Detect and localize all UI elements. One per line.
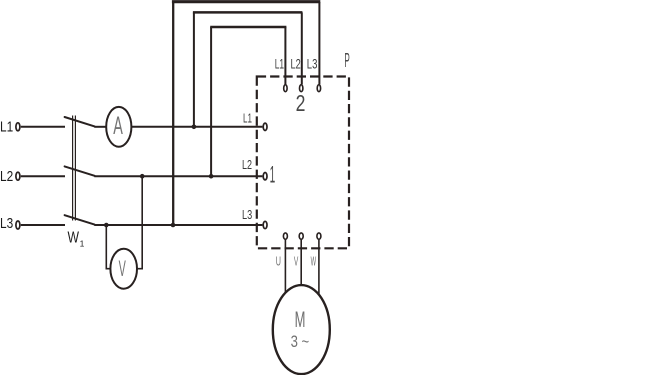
wire: middle bridge right vertical to plug top terminal L2 [301, 12, 303, 84]
svg-text:V: V [294, 254, 299, 269]
ammeter A [106, 107, 131, 147]
svg-text:P: P [344, 50, 349, 72]
junction: middle bridge tap on L1 [192, 125, 197, 130]
wire: inner bridge left vertical [210, 27, 212, 176]
terminal: L1 source [16, 123, 20, 131]
wire: W lead to motor [318, 240, 320, 296]
svg-text:W: W [68, 229, 80, 246]
wire: L3 source to switch [21, 224, 65, 226]
switch W1 blade pole 1 [65, 117, 95, 126]
wire: outer bridge top horizontal [172, 0, 320, 3]
motor M1 body [273, 285, 330, 374]
wire: voltmeter left lead [106, 225, 110, 269]
svg-text:L1: L1 [275, 56, 284, 71]
wire: middle bridge top horizontal [193, 11, 303, 14]
svg-text:L3: L3 [242, 207, 252, 222]
terminal: plug bottom U [283, 233, 287, 239]
svg-text:W: W [311, 254, 317, 269]
junction: outer bridge tap on L3 [171, 223, 176, 228]
wire: inner bridge right vertical to plug top terminal L1 [284, 27, 286, 84]
wire: voltmeter right lead [137, 176, 142, 269]
svg-text:A: A [113, 112, 123, 140]
svg-text:L1: L1 [0, 119, 13, 136]
switch W1 mechanical linkage [72, 116, 74, 221]
wire: switch pole2 to plug P terminal L2 [94, 175, 262, 177]
junction: inner bridge tap on L2 [209, 174, 214, 179]
terminal: plug top L2 [300, 85, 303, 92]
terminal: plug left L2 [263, 173, 267, 180]
terminal: plug top L1 [284, 85, 287, 92]
svg-text:1: 1 [80, 238, 85, 248]
svg-text:L3: L3 [0, 215, 13, 232]
svg-text:3 ~: 3 ~ [291, 332, 310, 351]
wire: inner bridge top horizontal [210, 26, 286, 29]
wire: outer bridge right vertical to plug top terminal L3 [318, 2, 320, 84]
svg-text:1: 1 [270, 162, 276, 189]
svg-text:L2: L2 [242, 157, 252, 172]
terminal: plug left L1 [263, 123, 267, 130]
switch W1 blade pole 2 [65, 166, 95, 175]
junction: voltmeter tap on L2 [140, 174, 145, 179]
wire: U lead to motor [284, 240, 286, 294]
svg-text:M: M [295, 307, 306, 332]
svg-text:L1: L1 [243, 111, 252, 126]
junction: voltmeter tap on L3 [104, 223, 109, 228]
svg-text:V: V [119, 256, 126, 281]
terminal: plug top L3 [317, 85, 320, 92]
svg-text:L3: L3 [307, 56, 318, 71]
wire: L2 source to switch [21, 175, 65, 177]
switch W1 blade pole 3 [65, 215, 95, 224]
wire: ammeter to plug P terminal L1 [131, 126, 262, 128]
svg-text:U: U [276, 254, 281, 269]
voltmeter V [110, 249, 137, 289]
svg-text:L2: L2 [291, 56, 301, 71]
wire: middle bridge left vertical [193, 12, 195, 126]
terminal: L2 source [16, 172, 20, 180]
plug-socket P dashed outline [257, 77, 349, 249]
terminal: L3 source [16, 221, 20, 229]
wire: switch pole1 to ammeter [94, 126, 106, 128]
svg-text:L2: L2 [0, 168, 13, 185]
svg-text:2: 2 [296, 90, 306, 116]
wire: V lead to motor [300, 240, 302, 287]
terminal: plug left L3 [263, 221, 267, 228]
terminal: plug bottom W [317, 233, 321, 239]
wire: L1 source to switch [21, 126, 65, 128]
terminal: plug bottom V [299, 233, 303, 239]
wire: outer bridge left vertical [172, 2, 174, 225]
wire: switch pole3 to plug P terminal L3 [94, 224, 262, 226]
